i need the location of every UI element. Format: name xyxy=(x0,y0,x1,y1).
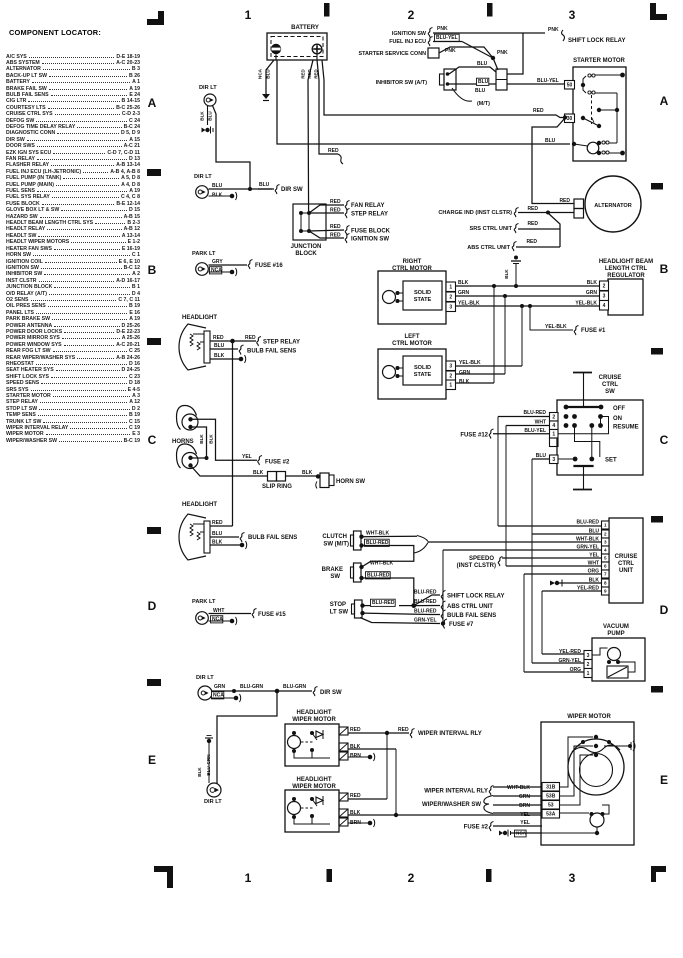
svg-text:CTRL: CTRL xyxy=(602,382,618,388)
svg-text:C: C xyxy=(660,433,669,447)
svg-text:CRUISE: CRUISE xyxy=(599,375,622,381)
svg-text:STOP: STOP xyxy=(330,602,346,608)
svg-text:BLK: BLK xyxy=(458,280,469,286)
svg-text:8: 8 xyxy=(604,581,607,586)
svg-text:PNK: PNK xyxy=(497,50,508,56)
svg-text:YEL-BLK: YEL-BLK xyxy=(545,324,567,330)
svg-text:NCA: NCA xyxy=(212,617,223,623)
svg-text:RED: RED xyxy=(527,206,538,212)
svg-text:BLK: BLK xyxy=(212,540,223,546)
svg-text:2: 2 xyxy=(587,662,590,668)
svg-text:9: 9 xyxy=(604,589,607,594)
svg-text:RED: RED xyxy=(526,239,537,245)
svg-text:BLU: BLU xyxy=(477,61,488,67)
svg-text:RED: RED xyxy=(350,727,361,733)
svg-text:DIR LT: DIR LT xyxy=(196,675,214,681)
svg-text:1: 1 xyxy=(604,523,607,528)
svg-text:BLU: BLU xyxy=(266,69,271,79)
svg-text:2: 2 xyxy=(604,532,607,537)
svg-text:LT SW: LT SW xyxy=(330,610,349,616)
svg-text:BLK: BLK xyxy=(209,434,214,444)
svg-text:HEADLIGHT: HEADLIGHT xyxy=(182,502,217,508)
svg-text:50: 50 xyxy=(567,83,573,89)
svg-text:SRS CTRL UNIT: SRS CTRL UNIT xyxy=(470,226,513,232)
svg-text:BLU: BLU xyxy=(478,79,489,85)
svg-text:PNK: PNK xyxy=(437,26,448,32)
svg-text:3: 3 xyxy=(552,457,555,463)
svg-text:STARTER SERVICE CONN: STARTER SERVICE CONN xyxy=(359,51,427,57)
svg-text:7: 7 xyxy=(604,572,607,577)
svg-text:FUSE #16: FUSE #16 xyxy=(255,263,283,269)
svg-text:C: C xyxy=(148,433,157,447)
svg-text:2: 2 xyxy=(408,871,415,885)
svg-text:NCA: NCA xyxy=(211,268,222,274)
svg-text:IGNITION SW: IGNITION SW xyxy=(351,237,389,243)
svg-text:RED: RED xyxy=(533,108,544,114)
svg-text:RED: RED xyxy=(328,148,339,154)
svg-text:CTRL MOTOR: CTRL MOTOR xyxy=(392,341,432,347)
svg-text:ALTERNATOR: ALTERNATOR xyxy=(594,203,632,209)
svg-text:RIGHT: RIGHT xyxy=(403,259,422,265)
svg-text:BLK: BLK xyxy=(459,379,470,385)
svg-text:BATTERY: BATTERY xyxy=(291,25,319,31)
svg-text:WHT-BLK: WHT-BLK xyxy=(576,536,599,542)
svg-text:BLU-RED: BLU-RED xyxy=(414,590,437,596)
svg-text:5: 5 xyxy=(604,556,607,561)
svg-text:BLK: BLK xyxy=(200,111,205,121)
svg-text:ABS CTRL UNIT: ABS CTRL UNIT xyxy=(447,604,493,610)
svg-text:PARK LT: PARK LT xyxy=(192,599,216,605)
svg-text:RED: RED xyxy=(330,224,341,230)
svg-text:RED: RED xyxy=(330,233,341,239)
svg-text:LENGTH CTRL: LENGTH CTRL xyxy=(605,266,648,272)
svg-text:BLK: BLK xyxy=(197,767,202,777)
svg-text:HEADLIGHT: HEADLIGHT xyxy=(297,710,332,716)
svg-text:WHT-BLK: WHT-BLK xyxy=(370,561,393,567)
svg-text:1: 1 xyxy=(449,383,452,389)
svg-text:FUSE #2: FUSE #2 xyxy=(265,460,290,466)
svg-text:DIR LT: DIR LT xyxy=(199,85,217,91)
svg-text:FUSE #7: FUSE #7 xyxy=(449,622,474,628)
svg-text:HEADLIGHT: HEADLIGHT xyxy=(297,777,332,783)
svg-text:GRY: GRY xyxy=(212,259,223,265)
svg-text:DIR SW: DIR SW xyxy=(320,690,342,696)
svg-text:FUSE BLOCK: FUSE BLOCK xyxy=(351,229,391,235)
svg-text:1: 1 xyxy=(449,285,452,291)
svg-text:YEL: YEL xyxy=(520,820,530,826)
svg-text:6: 6 xyxy=(604,564,607,569)
svg-text:ABS CTRL UNIT: ABS CTRL UNIT xyxy=(467,245,510,251)
svg-text:WHT-BLK: WHT-BLK xyxy=(507,785,530,791)
svg-text:RED: RED xyxy=(350,793,361,799)
svg-text:3: 3 xyxy=(449,305,452,311)
svg-text:RED: RED xyxy=(213,335,224,341)
svg-text:REGULATOR: REGULATOR xyxy=(607,273,645,279)
svg-text:BULB FAIL SENS: BULB FAIL SENS xyxy=(447,613,496,619)
svg-text:BLU-RED: BLU-RED xyxy=(577,519,600,525)
svg-text:WHT-BLK: WHT-BLK xyxy=(366,531,389,537)
svg-text:BLK: BLK xyxy=(302,470,313,476)
svg-text:(M/T): (M/T) xyxy=(477,101,490,107)
svg-text:2: 2 xyxy=(603,284,606,290)
svg-text:3: 3 xyxy=(449,364,452,370)
svg-text:A: A xyxy=(148,96,157,110)
svg-text:4: 4 xyxy=(603,303,606,309)
svg-text:BLK: BLK xyxy=(587,280,598,286)
svg-text:GRN: GRN xyxy=(586,290,598,296)
svg-text:DIR LT: DIR LT xyxy=(204,799,222,805)
svg-text:4: 4 xyxy=(552,423,555,429)
svg-text:BULB FAIL SENS: BULB FAIL SENS xyxy=(247,349,296,355)
svg-text:PARK LT: PARK LT xyxy=(192,251,216,257)
svg-text:WIPER/WASHER SW: WIPER/WASHER SW xyxy=(422,802,481,808)
svg-text:GRN: GRN xyxy=(458,290,470,296)
svg-text:SHIFT LOCK RELAY: SHIFT LOCK RELAY xyxy=(447,594,504,600)
svg-text:STEP RELAY: STEP RELAY xyxy=(351,212,388,218)
svg-text:SPEEDO: SPEEDO xyxy=(469,556,494,562)
svg-text:BLU-RED: BLU-RED xyxy=(372,600,395,606)
svg-text:SET: SET xyxy=(605,458,617,464)
svg-text:FUSE #12: FUSE #12 xyxy=(460,433,488,439)
svg-text:D: D xyxy=(148,599,157,613)
svg-text:PNK: PNK xyxy=(445,48,456,54)
svg-text:BLU: BLU xyxy=(208,111,213,121)
svg-text:GRN: GRN xyxy=(459,370,471,376)
svg-text:BLU-GRN: BLU-GRN xyxy=(283,684,306,690)
svg-text:BLU: BLU xyxy=(475,88,486,94)
svg-text:30: 30 xyxy=(567,116,573,122)
svg-text:2: 2 xyxy=(408,8,415,22)
svg-text:BLK: BLK xyxy=(504,269,509,279)
svg-text:2: 2 xyxy=(449,374,452,380)
svg-text:E: E xyxy=(660,773,668,787)
svg-text:2: 2 xyxy=(449,295,452,301)
svg-text:SW (M/T): SW (M/T) xyxy=(323,542,349,548)
svg-text:RED: RED xyxy=(301,69,306,78)
svg-text:SHIFT LOCK RELAY: SHIFT LOCK RELAY xyxy=(568,38,625,44)
svg-text:JUNCTION: JUNCTION xyxy=(291,244,322,250)
svg-text:BLOCK: BLOCK xyxy=(295,251,317,257)
svg-text:3: 3 xyxy=(569,871,576,885)
svg-text:BLU: BLU xyxy=(212,183,223,189)
svg-text:53: 53 xyxy=(548,803,554,809)
svg-text:1: 1 xyxy=(552,432,555,438)
svg-text:SOLID: SOLID xyxy=(414,290,431,296)
svg-text:B: B xyxy=(148,263,157,277)
svg-text:BLK: BLK xyxy=(253,470,264,476)
svg-text:31B: 31B xyxy=(546,785,556,791)
svg-text:FAN RELAY: FAN RELAY xyxy=(351,203,384,209)
svg-text:FUSE #1: FUSE #1 xyxy=(581,328,606,334)
svg-text:RED: RED xyxy=(527,221,538,227)
svg-text:SOLID: SOLID xyxy=(414,365,431,371)
svg-text:4: 4 xyxy=(604,548,607,553)
svg-text:RESUME: RESUME xyxy=(613,425,639,431)
svg-text:3: 3 xyxy=(603,294,606,300)
svg-text:RED: RED xyxy=(212,520,223,526)
svg-text:3: 3 xyxy=(587,653,590,659)
svg-text:WIPER INTERVAL RLY: WIPER INTERVAL RLY xyxy=(424,789,488,795)
svg-text:BLU-GRN: BLU-GRN xyxy=(240,684,263,690)
svg-text:GRN-YEL: GRN-YEL xyxy=(414,618,437,624)
svg-text:YEL: YEL xyxy=(242,454,252,460)
svg-text:3: 3 xyxy=(604,540,607,545)
svg-text:LEFT: LEFT xyxy=(405,334,420,340)
svg-text:BRAKE: BRAKE xyxy=(322,567,343,573)
svg-text:YEL-BLK: YEL-BLK xyxy=(459,360,481,366)
svg-text:RED: RED xyxy=(398,727,409,733)
svg-text:2: 2 xyxy=(552,415,555,421)
svg-text:BLU-RED: BLU-RED xyxy=(524,410,547,416)
svg-text:BLU-RED: BLU-RED xyxy=(414,599,437,605)
svg-text:(INST CLSTR): (INST CLSTR) xyxy=(457,563,496,569)
svg-text:RED: RED xyxy=(330,208,341,214)
svg-text:DIR SW: DIR SW xyxy=(281,187,303,193)
svg-text:CLUTCH: CLUTCH xyxy=(322,534,347,540)
svg-text:PUMP: PUMP xyxy=(607,631,624,637)
svg-text:D: D xyxy=(660,603,669,617)
svg-text:YEL-BLK: YEL-BLK xyxy=(575,301,597,307)
svg-text:BLU-YEL: BLU-YEL xyxy=(436,35,458,41)
svg-text:HEADLIGHT: HEADLIGHT xyxy=(182,315,217,321)
svg-text:INHIBITOR SW (A/T): INHIBITOR SW (A/T) xyxy=(376,80,428,86)
svg-text:STARTER MOTOR: STARTER MOTOR xyxy=(573,58,625,64)
svg-text:BRN: BRN xyxy=(519,803,530,809)
svg-text:3: 3 xyxy=(569,8,576,22)
svg-text:PNK: PNK xyxy=(548,27,559,33)
svg-text:CTRL: CTRL xyxy=(618,561,634,567)
svg-text:RED: RED xyxy=(245,335,256,341)
svg-text:BULB FAIL SENS: BULB FAIL SENS xyxy=(248,535,297,541)
svg-text:STATE: STATE xyxy=(414,297,432,303)
svg-text:BLU: BLU xyxy=(259,182,270,188)
svg-text:HORN SW: HORN SW xyxy=(336,479,365,485)
svg-text:CHARGE IND (INST CLSTR): CHARGE IND (INST CLSTR) xyxy=(438,210,512,216)
svg-text:BLU: BLU xyxy=(212,531,223,537)
svg-text:BLU: BLU xyxy=(536,453,547,459)
svg-text:B: B xyxy=(660,262,669,276)
svg-text:WIPER MOTOR: WIPER MOTOR xyxy=(292,717,336,723)
svg-text:BLU: BLU xyxy=(545,138,556,144)
svg-text:BLU-YEL: BLU-YEL xyxy=(524,428,546,434)
svg-text:1: 1 xyxy=(245,871,252,885)
svg-text:YEL-BLK: YEL-BLK xyxy=(458,301,480,307)
svg-text:STEP RELAY: STEP RELAY xyxy=(263,340,300,346)
svg-text:HEADLIGHT BEAM: HEADLIGHT BEAM xyxy=(599,259,653,265)
svg-text:WIPER MOTOR: WIPER MOTOR xyxy=(567,714,611,720)
svg-text:A: A xyxy=(660,94,669,108)
svg-text:ON: ON xyxy=(613,416,622,422)
svg-text:GRN: GRN xyxy=(214,684,226,690)
svg-text:SW: SW xyxy=(330,574,340,580)
svg-text:NCA: NCA xyxy=(258,68,263,79)
svg-text:WIPER MOTOR: WIPER MOTOR xyxy=(292,784,336,790)
svg-text:53B: 53B xyxy=(546,794,556,800)
svg-text:GRN: GRN xyxy=(519,794,531,800)
svg-text:WHT: WHT xyxy=(535,420,546,426)
svg-text:FUEL INJ ECU: FUEL INJ ECU xyxy=(389,39,426,45)
svg-text:BLK: BLK xyxy=(214,353,225,359)
svg-text:BLU-RED: BLU-RED xyxy=(414,609,437,615)
svg-text:BLU-YEL: BLU-YEL xyxy=(537,78,559,84)
svg-text:IGNITION SW: IGNITION SW xyxy=(392,31,427,37)
svg-text:53A: 53A xyxy=(546,812,556,818)
svg-text:UNIT: UNIT xyxy=(619,568,633,574)
svg-text:BRN: BRN xyxy=(350,753,361,759)
svg-text:SW: SW xyxy=(605,389,615,395)
svg-text:FUSE #15: FUSE #15 xyxy=(258,612,286,618)
svg-text:BLK: BLK xyxy=(199,434,204,444)
svg-text:1: 1 xyxy=(587,671,590,677)
svg-text:1: 1 xyxy=(245,8,252,22)
svg-text:OFF: OFF xyxy=(613,406,625,412)
svg-text:FUSE #2: FUSE #2 xyxy=(464,825,489,831)
svg-text:DIR LT: DIR LT xyxy=(194,174,212,180)
svg-text:RED: RED xyxy=(330,199,341,205)
svg-text:CRUISE: CRUISE xyxy=(615,554,638,560)
svg-text:VACUUM: VACUUM xyxy=(603,624,629,630)
svg-text:BLU: BLU xyxy=(214,343,225,349)
svg-text:SLIP RING: SLIP RING xyxy=(262,484,292,490)
svg-text:STATE: STATE xyxy=(414,372,432,378)
svg-text:WIPER INTERVAL RLY: WIPER INTERVAL RLY xyxy=(418,731,482,737)
svg-text:E: E xyxy=(148,753,156,767)
